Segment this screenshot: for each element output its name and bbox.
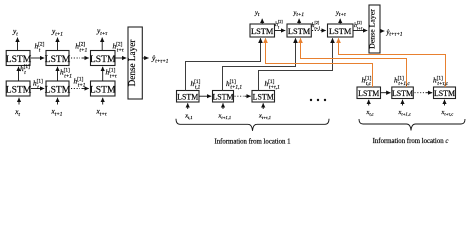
wire: RT2 to RT3 dashed with label h_{t+1}^[2] [312,20,326,30]
brace location c [359,119,465,131]
input arrow x_{t,1} [184,103,192,121]
svg-text:h[1]t+τ,1: h[1]t+τ,1 [265,79,281,91]
wire: LB1 up to RT1 (black L) with label h_{t,1}^[1] [186,38,261,90]
output arrow y_{t+1} (right) [293,10,305,24]
svg-text:yt+1: yt+1 [51,27,63,38]
input arrow x_{t+tau,1} [258,103,271,121]
wire: LB1 to LB2 [199,95,211,97]
svg-text:xt+τ,1: xt+τ,1 [258,113,271,122]
LSTM box T1 (layer2, t) [6,51,32,66]
LSTM box RT2 (top, t+1) [287,24,311,37]
svg-text:h[1]t+1,c: h[1]t+1,c [394,76,410,88]
svg-text:xt+τ: xt+τ [96,107,108,118]
svg-text:LSTM: LSTM [251,27,274,36]
output arrow y_t [12,27,18,51]
wire: B1 up to T1 with label h_t^[1] [19,64,31,81]
svg-text:yt+τ: yt+τ [335,10,347,19]
LSTM box B3 (layer1, t+tau) [90,81,116,96]
wire: RT1 to RT2 with label h_t^[2] [275,19,286,30]
svg-text:LSTM: LSTM [45,54,71,65]
svg-text:h[1]t+1: h[1]t+1 [74,77,86,89]
svg-text:xt: xt [14,107,20,118]
svg-text:h[1]t+τ: h[1]t+τ [106,68,118,80]
svg-text:h[2]t: h[2]t [35,42,45,54]
output arrow y_t (right) [254,10,262,24]
input arrow x_{t+tau} [96,98,108,118]
svg-text:Dense Layer: Dense Layer [127,40,137,87]
svg-text:ŷt+τ+1: ŷt+τ+1 [386,29,403,38]
svg-text:LSTM: LSTM [358,89,379,98]
LSTM box LB3 (loc1, t+tau) [252,91,275,103]
svg-text:LSTM: LSTM [253,93,274,102]
wire: CB1 to CB2 [381,92,391,94]
wire: CB1 up to RT1 (orange L) with label h_{t,c}^[1] [266,38,373,87]
input arrow x_{t+tau,c} [441,100,454,118]
Dense Layer box (left) [127,27,142,99]
brace location 1 [176,119,329,131]
svg-text:h[1]t,c: h[1]t,c [362,76,372,88]
svg-text:LSTM: LSTM [329,27,352,36]
svg-text:LSTM: LSTM [212,93,233,102]
wire: RT3 to Dense with label h_{t+tau}^[2] [353,20,367,30]
wire: CB2 to CB3 dashed [415,92,433,94]
input arrow x_{t+1} [51,98,63,118]
svg-text:h[2]t+τ: h[2]t+τ [354,20,363,30]
wire: B2 to B3 dashed with label h_{t+1}^[1] [71,77,89,89]
svg-text:xt+1,1: xt+1,1 [218,113,232,122]
svg-text:yt+1: yt+1 [293,10,305,19]
wire: Dense out to y-hat label [142,54,168,65]
LSTM box T2 (layer2, t+1) [45,51,71,66]
output arrow y_{t+tau} (right) [335,10,347,24]
wire: T2 to T3 dashed with label h_{t+1}^[2] [71,42,89,58]
LSTM box RT3 (top, t+tau) [328,24,354,37]
wire: T1 to T2 with label h_t^[2] [31,42,45,58]
wire: CB2 up to RT2 (orange L) with label h_{t+1,c}^[1] [301,38,411,87]
svg-text:xt,c: xt,c [366,109,374,118]
wire: LB3 up to RT3 (black L) with label h_{t+tau,1}^[1] [259,38,333,90]
wire: B3 up to T3 with label h_{t+tau}^[1] [103,67,118,81]
svg-text:h[1]t+1: h[1]t+1 [60,68,72,80]
LSTM box B2 (layer1, t+1) [45,81,71,96]
LSTM box CB2 (locc, t+1) [392,87,414,99]
wire: LB2 up to RT2 (black L) with label h_{t+1,1}^[1] [223,38,296,90]
svg-text:LSTM: LSTM [90,54,116,65]
svg-text:yt: yt [254,10,260,19]
svg-text:h[1]t,1: h[1]t,1 [191,79,201,91]
svg-text:Information from location c: Information from location c [373,138,449,145]
input arrow x_{t+1,1} [218,103,232,121]
svg-text:h[1]t: h[1]t [20,64,30,76]
svg-text:xt+τ,c: xt+τ,c [441,109,454,118]
svg-text:yt+τ: yt+τ [96,26,108,37]
LSTM box RT1 (top, t) [250,24,275,37]
svg-text:LSTM: LSTM [90,85,116,96]
svg-text:yt: yt [12,27,18,38]
svg-text:h[2]t+1: h[2]t+1 [75,42,87,54]
input arrow x_{t+1,c} [398,100,411,118]
LSTM box B1 (layer1, t) [6,81,32,96]
output arrow y_{t+1} [51,27,63,51]
svg-text:ŷt+τ+1: ŷt+τ+1 [151,54,169,65]
svg-text:Dense Layer: Dense Layer [368,9,377,49]
wire: T3 to Dense with label h_{t+tau}^[2] [113,42,127,58]
wire: Dense (right) out to y-hat [380,29,403,38]
wire: B1 to B2 with label h_t^[1] [31,79,44,91]
svg-text:LSTM: LSTM [288,27,311,36]
input arrow x_{t,c} [366,100,374,118]
Dense Layer box (right) [368,5,381,53]
svg-text:LSTM: LSTM [6,85,32,96]
input arrow x_t [14,98,20,118]
svg-text:Information from location 1: Information from location 1 [214,139,290,146]
svg-text:LSTM: LSTM [177,93,198,102]
wire: B2 up to T2 with label h_{t+1}^[1] [58,67,73,81]
LSTM box CB1 (locc, t) [357,87,381,99]
wire: LB2 to LB3 dashed [235,95,251,97]
output arrow y_{t+tau} [96,26,108,50]
LSTM box CB3 (locc, t+tau) [434,87,456,99]
LSTM box LB2 (loc1, t+1) [212,91,233,103]
svg-text:h[2]t: h[2]t [275,19,283,29]
svg-text:h[1]t+1,1: h[1]t+1,1 [226,79,242,91]
caption: Information from location c [373,138,449,145]
svg-text:xt,1: xt,1 [184,113,192,122]
svg-text:xt+1: xt+1 [51,107,63,118]
wire: CB3 up to RT3 (orange L) with label h_{t+tau,c}^[1] [339,38,449,87]
LSTM box LB1 (loc1, t) [177,91,200,103]
svg-text:LSTM: LSTM [434,89,455,98]
svg-text:LSTM: LSTM [45,85,71,96]
svg-text:h[2]t+1: h[2]t+1 [312,20,321,30]
svg-text:h[1]t+τ,c: h[1]t+τ,c [433,76,449,88]
caption: Information from location 1 [214,139,290,146]
svg-text:xt+1,c: xt+1,c [398,109,411,118]
LSTM box T3 (layer2, t+tau) [90,51,116,66]
svg-text:LSTM: LSTM [392,89,413,98]
